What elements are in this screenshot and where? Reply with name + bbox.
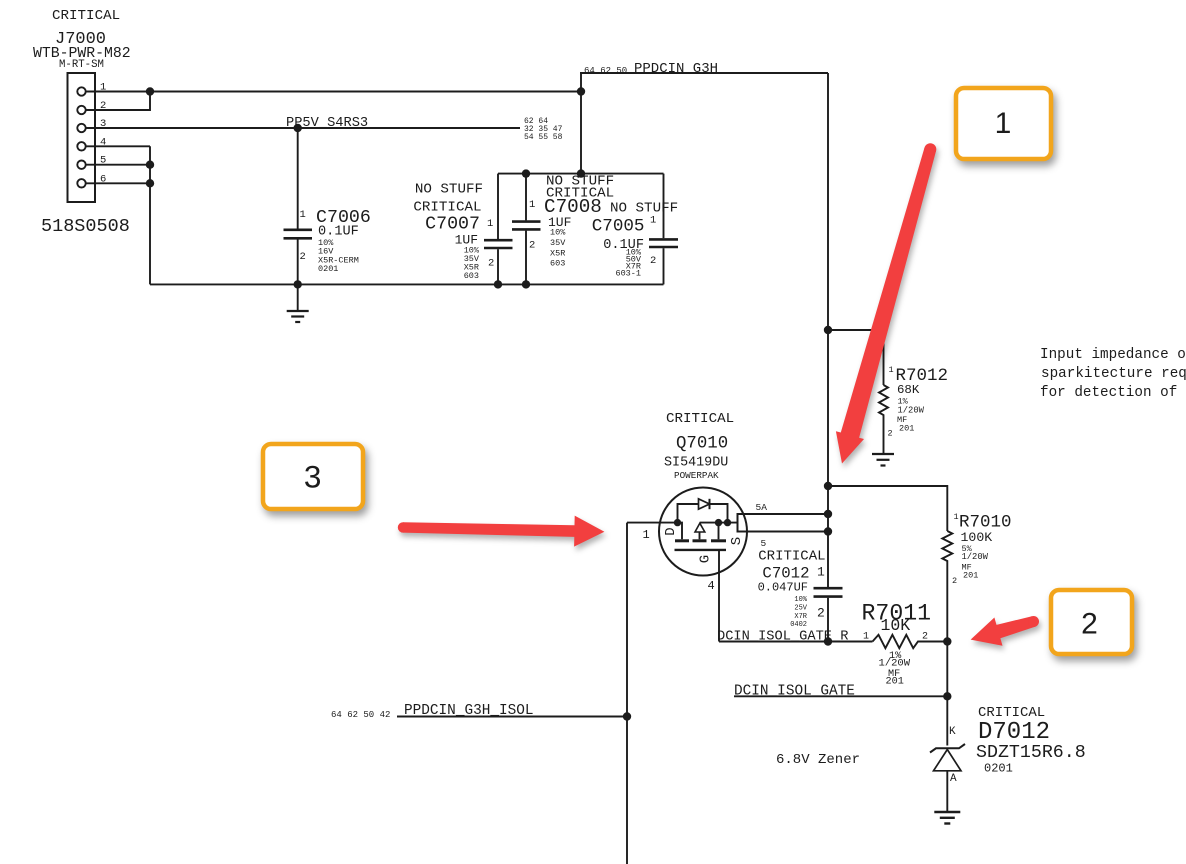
annotation arrow 3 [398, 516, 605, 547]
pin numbers of pin3 net [524, 117, 563, 142]
svg-text:CRITICAL: CRITICAL [666, 411, 734, 427]
svg-text:5A: 5A [756, 502, 768, 513]
svg-text:Input impedance of: Input impedance of [1040, 347, 1186, 363]
svg-text:NO STUFF: NO STUFF [415, 182, 483, 198]
wire to R7010 [828, 486, 947, 531]
callout box 3 [263, 444, 363, 509]
node C7012 bottom junction [824, 637, 832, 645]
svg-text:201: 201 [899, 423, 914, 433]
svg-text:0402: 0402 [790, 621, 807, 629]
svg-text:1: 1 [529, 199, 535, 211]
svg-text:1: 1 [650, 215, 656, 227]
D7012 labels [776, 705, 1086, 785]
svg-text:1: 1 [817, 565, 825, 580]
svg-text:1: 1 [300, 209, 306, 221]
svg-text:SI5419DU: SI5419DU [664, 456, 728, 471]
annotation arrow 2 [971, 616, 1039, 646]
svg-text:64 62 50 42: 64 62 50 42 [331, 710, 390, 720]
C7007 labels [413, 182, 494, 282]
wire R7012 branch [828, 330, 884, 385]
annotation arrow 1 [836, 143, 936, 463]
diode D7012 zener [930, 744, 965, 812]
svg-text:603: 603 [550, 259, 565, 269]
node source s2 [724, 519, 731, 526]
node R7010 branch junction [824, 482, 832, 490]
Q7010 labels [664, 411, 734, 481]
svg-text:1/20W: 1/20W [898, 405, 925, 415]
net label PPDCIN_G3H_ISOL [331, 703, 534, 720]
svg-text:2: 2 [488, 257, 494, 269]
svg-text:603: 603 [464, 271, 479, 281]
svg-text:for detection of M: for detection of M [1040, 385, 1186, 401]
svg-text:X7R: X7R [794, 613, 807, 621]
mosfet gate wire pin 4 [718, 550, 720, 642]
svg-text:1: 1 [487, 218, 493, 230]
svg-text:10K: 10K [881, 616, 911, 635]
node source s1 [715, 519, 722, 526]
svg-text:Q7010: Q7010 [676, 435, 728, 454]
source bracket [738, 514, 745, 532]
svg-text:68K: 68K [897, 383, 920, 397]
svg-text:1: 1 [643, 528, 650, 542]
svg-text:10%: 10% [794, 596, 807, 604]
node R7011-R7010 junction [943, 637, 951, 645]
svg-text:M-RT-SM: M-RT-SM [59, 59, 104, 71]
svg-text:0201: 0201 [318, 264, 338, 274]
svg-text:2: 2 [529, 240, 535, 252]
node C7007 bottom junction [494, 280, 502, 288]
svg-text:C7005: C7005 [592, 217, 645, 237]
wire pin5 [86, 164, 150, 166]
wire PPDCIN down to cap bus [580, 73, 582, 174]
mosfet source rail [700, 522, 738, 524]
resistor R7011 [873, 635, 948, 648]
node C7006 bottom junction [294, 280, 302, 288]
capacitor C7006 [284, 128, 313, 284]
node 5 junction [824, 527, 832, 535]
wire pin 5 [738, 531, 829, 533]
wire pin 5A [738, 513, 829, 515]
C7008 labels [529, 174, 614, 269]
node top bus PPDCIN junction [577, 169, 585, 177]
node pin6 junction [146, 179, 154, 187]
svg-text:100K: 100K [961, 530, 993, 545]
wire DCIN_ISOL_GATE_R [719, 641, 873, 643]
wire pin4-6 bus down [149, 146, 151, 284]
svg-text:CRITICAL: CRITICAL [52, 8, 120, 24]
svg-text:2: 2 [650, 255, 656, 267]
node PPDCIN pin1 junction [577, 87, 585, 95]
svg-text:C7007: C7007 [425, 215, 480, 235]
svg-text:SDZT15R6.8: SDZT15R6.8 [976, 743, 1086, 763]
svg-text:2: 2 [888, 429, 893, 439]
svg-text:1: 1 [995, 107, 1012, 140]
node R7012 branch junction [824, 326, 832, 334]
svg-text:2: 2 [817, 606, 825, 621]
callout box 1 [956, 88, 1051, 159]
svg-text:54 55 58: 54 55 58 [524, 133, 563, 142]
wire cap top bus [498, 173, 664, 175]
wire main PPDCIN vertical [827, 73, 829, 588]
svg-text:NO STUFF: NO STUFF [610, 201, 678, 217]
svg-text:10%: 10% [550, 228, 566, 238]
svg-text:S: S [729, 537, 745, 545]
node PPDCIN_G3H_ISOL junction [623, 712, 631, 720]
svg-text:518S0508: 518S0508 [41, 216, 130, 237]
svg-text:35V: 35V [550, 238, 566, 248]
node Q7010 drain [674, 519, 681, 526]
svg-text:D7012: D7012 [978, 719, 1050, 746]
svg-text:1/20W: 1/20W [962, 552, 989, 562]
C7012 labels [758, 549, 826, 630]
svg-text:603-1: 603-1 [615, 269, 641, 279]
wire pin2 up to pin1 [86, 92, 150, 111]
svg-text:K: K [949, 726, 956, 738]
svg-text:201: 201 [963, 571, 978, 581]
capacitor C7007 [484, 174, 513, 285]
svg-text:A: A [950, 773, 957, 785]
R7010 labels [952, 512, 1012, 586]
C7005 labels [592, 201, 678, 279]
svg-text:PPDCIN G3H: PPDCIN G3H [634, 61, 718, 77]
R7011 labels [862, 601, 932, 688]
svg-text:2: 2 [1081, 608, 1098, 641]
capacitor C7012 [814, 588, 843, 641]
svg-text:2: 2 [922, 632, 928, 643]
wire pin3 PP5V_S4RS3 [86, 127, 520, 129]
node PP5V junction at C7006 [294, 124, 302, 132]
transistor Q2 Q7010 circle [659, 488, 747, 576]
svg-text:25V: 25V [794, 604, 807, 612]
wire pin4 [86, 145, 150, 147]
wire DCIN_ISOL_GATE [734, 695, 947, 697]
mosfet channel bars [675, 539, 689, 542]
node top bus C7008 junction [522, 169, 530, 177]
svg-text:5: 5 [761, 538, 767, 549]
svg-text:POWERPAK: POWERPAK [674, 470, 719, 481]
svg-text:0.047UF: 0.047UF [758, 581, 808, 595]
wire pin1 to PPDCIN junction [86, 91, 581, 93]
D S G letters [663, 527, 745, 563]
node pin5 junction [146, 161, 154, 169]
node 5A junction [824, 510, 832, 518]
svg-text:64 62 50: 64 62 50 [584, 66, 627, 76]
J7000 labels [33, 8, 131, 237]
C7006 labels [300, 208, 371, 274]
svg-text:4: 4 [708, 579, 715, 593]
callout box 2 [1051, 590, 1132, 654]
svg-text:1: 1 [954, 512, 959, 522]
svg-text:1: 1 [863, 632, 869, 643]
mosfet drain contact [678, 523, 683, 540]
svg-text:1: 1 [889, 365, 894, 375]
body diode D of Q7010 [678, 499, 728, 523]
node DCIN_ISOL_GATE junction [943, 692, 951, 700]
svg-text:2: 2 [300, 251, 306, 263]
net label PPDCIN_G3H with pin numbers [584, 61, 718, 77]
svg-text:2: 2 [952, 576, 957, 586]
note text [1040, 347, 1186, 401]
wire isolation vertical to bottom [626, 523, 628, 864]
wire down to DCIN_ISOL_GATE [946, 642, 948, 746]
svg-text:1/20W: 1/20W [879, 658, 911, 670]
node C7008 bottom junction [522, 280, 530, 288]
mosfet gate plate [675, 549, 727, 551]
wire PPDCIN_G3H top [580, 72, 828, 74]
R7012 labels [888, 365, 949, 439]
capacitor C7008 [512, 174, 541, 285]
wire PPDCIN_G3H_ISOL [397, 716, 627, 718]
node pin1 junction [146, 87, 154, 95]
wire bottom ground bus [150, 283, 664, 285]
svg-text:G: G [698, 555, 714, 563]
svg-text:CRITICAL: CRITICAL [758, 549, 825, 565]
ground below R7012 [872, 454, 894, 466]
svg-text:D: D [663, 527, 679, 535]
svg-text:X5R: X5R [550, 249, 565, 259]
capacitor C7005 [649, 174, 678, 285]
mosfet body arrow [695, 523, 705, 539]
connector J7000 [68, 73, 96, 202]
resistor R7012 [879, 385, 888, 454]
svg-text:3: 3 [304, 459, 322, 495]
svg-text:0201: 0201 [984, 762, 1013, 776]
mosfet source contact [718, 523, 720, 540]
svg-text:201: 201 [886, 677, 904, 688]
svg-text:CRITICAL: CRITICAL [413, 200, 481, 216]
svg-text:6.8V Zener: 6.8V Zener [776, 752, 860, 768]
pin number labels 1-6 [100, 82, 106, 186]
ground below C7006 [287, 284, 309, 322]
wire Q7010 pin1 [627, 522, 678, 524]
ground below D7012 [934, 812, 960, 824]
wire pin6 [86, 182, 150, 184]
svg-text:sparkitecture requir: sparkitecture requir [1041, 366, 1186, 382]
resistor R7010 [942, 531, 952, 642]
